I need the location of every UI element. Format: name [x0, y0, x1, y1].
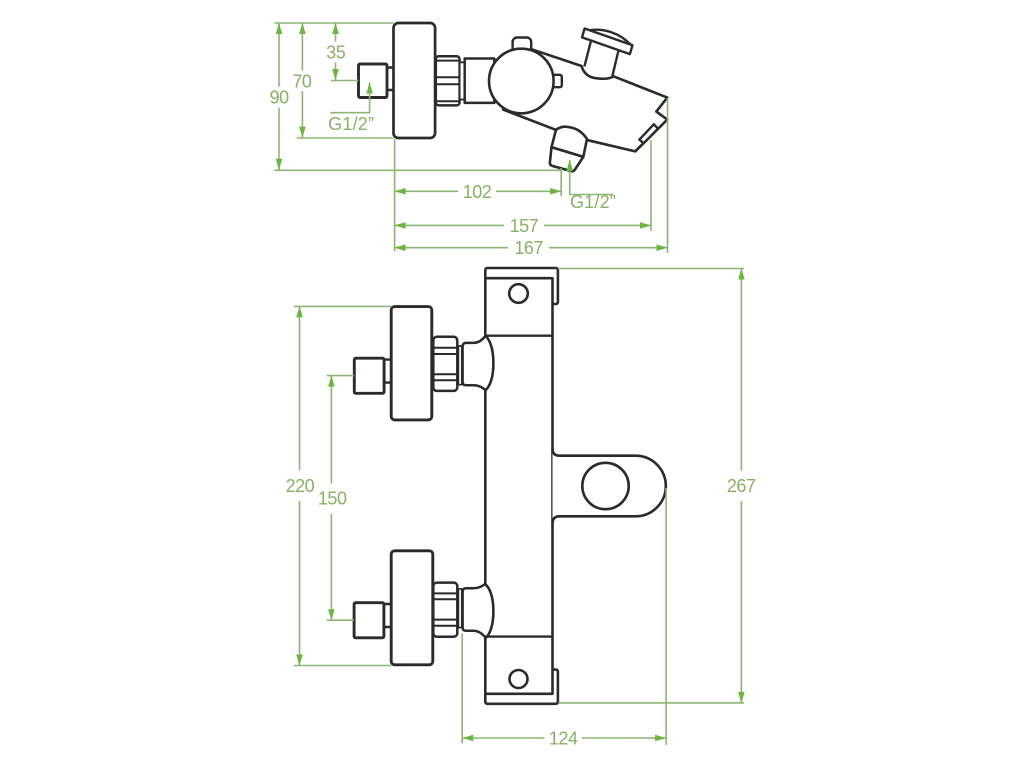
dim 124 line	[462, 737, 544, 739]
upper inlet stub	[383, 360, 392, 383]
cap nub on thermostat head	[513, 38, 532, 56]
top view dimension texts	[270, 43, 616, 259]
svg-text:90: 90	[270, 88, 290, 108]
70 reference line	[297, 137, 394, 139]
220 reference bottom	[294, 665, 391, 667]
upper knob escutcheon	[391, 307, 432, 420]
diverter stem	[584, 42, 618, 77]
washer ring	[460, 62, 465, 99]
35 reference tick	[331, 80, 359, 82]
bottom wall bracket cap	[485, 670, 558, 704]
dim 167 line	[395, 247, 508, 249]
svg-text:267: 267	[727, 476, 756, 496]
side tab on thermostat head	[546, 75, 562, 87]
aerator slot on spout end	[639, 124, 658, 143]
124 extension left	[461, 634, 463, 744]
top reference line	[275, 22, 394, 24]
dim 267 line	[740, 269, 742, 471]
lower inlet stub	[383, 604, 392, 627]
lower knob escutcheon	[391, 551, 433, 665]
extension line left (wall plane)	[394, 139, 396, 252]
svg-text:G1/2”: G1/2”	[570, 192, 616, 212]
nut facet lines	[437, 61, 459, 102]
shower outlet upper (dome)	[552, 127, 588, 157]
svg-text:167: 167	[514, 238, 543, 258]
cartridge housing (side view)	[465, 59, 495, 103]
lower washer	[458, 589, 461, 628]
dim 150 line	[330, 376, 332, 484]
G1/2 top leader	[369, 83, 371, 113]
thermostat head circle	[489, 49, 554, 114]
svg-text:220: 220	[286, 476, 315, 496]
front view dimension texts	[286, 476, 756, 749]
upper washer	[458, 346, 461, 385]
220 reference top	[294, 305, 391, 307]
dim 157 line	[395, 224, 504, 226]
main body column	[485, 278, 552, 694]
front view arrows	[296, 269, 745, 742]
inlet union square G1/2 (side view)	[359, 64, 388, 98]
lower nut facets	[434, 593, 456, 625]
svg-text:35: 35	[326, 43, 346, 63]
upper nut facets	[434, 348, 456, 381]
inlet stub (side view)	[386, 68, 395, 91]
dim 90 line	[278, 23, 280, 87]
upper boss	[463, 336, 486, 390]
top wall bracket cap	[485, 268, 558, 304]
svg-text:G1/2”: G1/2”	[328, 114, 374, 134]
150 reference bottom	[327, 619, 354, 621]
upper union square	[354, 358, 384, 393]
G1/2 bottom leader	[569, 160, 571, 195]
150 reference top	[327, 375, 354, 377]
bottom mounting hole	[510, 670, 528, 688]
diverter dome cap	[587, 30, 631, 45]
svg-text:102: 102	[463, 182, 492, 202]
90 reference line	[275, 169, 562, 171]
connection nut (side view)	[436, 56, 460, 105]
svg-text:157: 157	[510, 216, 539, 236]
shower outlet tip G1/2	[550, 147, 583, 171]
124 extension right	[665, 488, 667, 745]
top mounting hole	[509, 284, 528, 303]
top view arrows	[276, 23, 668, 251]
upper nut	[433, 337, 457, 391]
extension line aerator	[650, 140, 652, 231]
267 extension top	[558, 268, 744, 270]
spout boss protrusion	[553, 449, 666, 524]
diverter cap slab	[582, 29, 633, 55]
lower union square	[354, 603, 384, 638]
extension line outlet	[560, 168, 562, 196]
dim 70 line	[301, 23, 303, 71]
dim 220 line	[299, 306, 301, 470]
svg-text:124: 124	[549, 729, 578, 749]
lower nut	[433, 583, 457, 637]
dim 35 line	[335, 23, 337, 42]
body interior lines	[485, 335, 552, 337]
dim 102 line	[395, 190, 458, 192]
svg-text:70: 70	[292, 71, 312, 91]
extension line spout tip	[667, 98, 669, 253]
267 extension bottom	[558, 702, 744, 704]
faucet body (side view, angled)	[503, 48, 667, 151]
spout hole circle	[582, 463, 628, 509]
svg-text:150: 150	[318, 488, 347, 508]
lower boss	[463, 584, 486, 638]
wall plate (side view)	[394, 23, 436, 138]
